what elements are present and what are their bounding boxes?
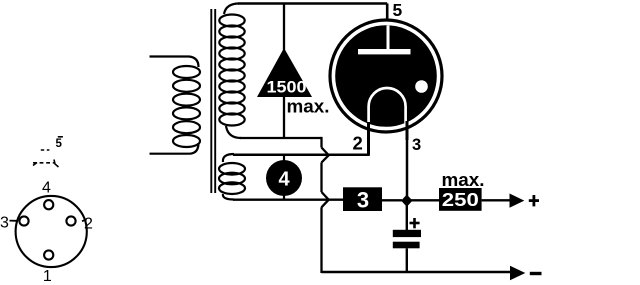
wire: HV return down to negative rail with crossover hops [322, 137, 329, 273]
box 250 (output rating) [439, 188, 482, 211]
svg-text:4: 4 [42, 179, 51, 196]
capacitor C (smoothing) wire from junction [406, 204, 408, 231]
voltage marker line (anode voltage) [283, 4, 285, 139]
transformer filament winding [219, 154, 245, 200]
tube leg pin 3 [406, 121, 409, 140]
wire: anode top cap lead down into tube [386, 4, 389, 27]
svg-text:2: 2 [84, 215, 93, 232]
svg-text:250: 250 [442, 190, 479, 210]
socket label 3 with tick [10, 220, 17, 222]
transformer HV secondary winding [219, 4, 244, 139]
tube inner disc [335, 25, 437, 127]
plus sign (positive output) [529, 195, 539, 206]
socket pin 3 (left) [19, 216, 28, 225]
svg-text:3: 3 [0, 214, 9, 231]
svg-text:3: 3 [357, 188, 369, 213]
wire: filament bottom lead to box 3 [233, 198, 344, 200]
svg-text:5: 5 [393, 0, 403, 20]
minus sign (negative output) [530, 272, 542, 275]
capacitor C plates [393, 230, 421, 237]
wire: tube pin 3 down to junction [406, 120, 409, 197]
negative output arrow [510, 266, 525, 281]
svg-text:2: 2 [353, 133, 363, 154]
anode lead inside disc [387, 26, 390, 51]
svg-text:3: 3 [412, 136, 421, 154]
socket pin 1 (bottom) [44, 250, 53, 259]
voltage marker triangle 1500 [257, 48, 312, 97]
gas-filled indicator dot [415, 80, 428, 93]
socket pin 4 (top) [44, 200, 53, 209]
tube base / socket outline (bottom view) [16, 196, 87, 267]
anode plate bar [358, 49, 411, 54]
transformer T1 primary winding [150, 57, 201, 154]
wire: filament top lead to tube pin 2 [233, 120, 369, 155]
transformer core [211, 9, 215, 193]
junction node (diamond) [401, 195, 412, 207]
wire: HV secondary bottom lead [240, 137, 322, 139]
svg-text:5: 5 [56, 138, 63, 150]
svg-text:1: 1 [43, 268, 52, 285]
top cap symbol (dashed) with pin 5 [33, 137, 63, 167]
svg-text:max.: max. [442, 169, 485, 190]
rectifier tube V1 (gas-filled, outer envelope) [330, 20, 442, 132]
socket pin 2 (right) [66, 216, 75, 225]
socket label 2 with tick [82, 220, 87, 222]
svg-text:4: 4 [278, 168, 290, 190]
capacitor polarity plus [410, 218, 420, 228]
wire: HV secondary top to anode top cap [238, 2, 387, 4]
positive output arrow [510, 194, 525, 208]
tube leg pin 2 [367, 122, 370, 155]
wire: box 250 to positive output arrow [482, 199, 511, 201]
negative rail [322, 271, 512, 273]
svg-text:max.: max. [287, 96, 330, 117]
box 3 (filament current rating) [343, 187, 382, 211]
wire: box 3 to junction [382, 199, 402, 201]
wire: junction to box 250 [411, 199, 440, 201]
filament dome (cathode) [369, 88, 406, 126]
svg-text:1500: 1500 [267, 78, 307, 96]
capacitor bottom wire [406, 248, 408, 273]
filament voltage indicator circle 4 [283, 155, 285, 161]
